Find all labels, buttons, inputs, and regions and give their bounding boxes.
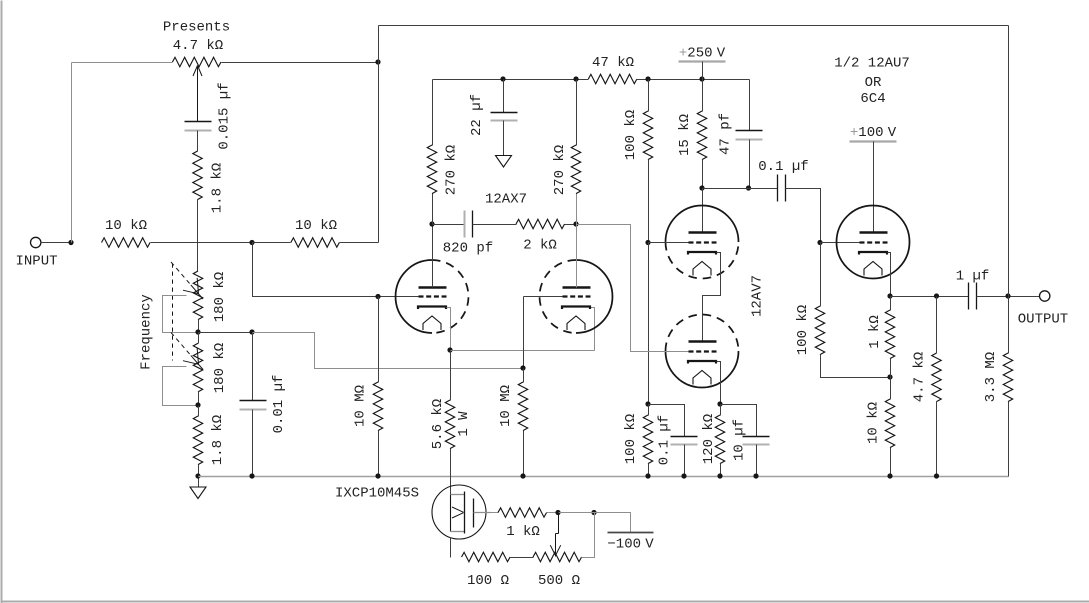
capacitor C4 820pf [465, 211, 473, 238]
wire V2b cathode lead [717, 362, 721, 405]
wire node H to R12 [378, 297, 380, 383]
svg-text:10 kΩ: 10 kΩ [105, 218, 147, 234]
node B junction dot [375, 59, 380, 64]
svg-text:22 µf: 22 µf [469, 94, 485, 136]
label 3.3 MOhm [983, 352, 999, 402]
label 1/2 12AU7 [834, 56, 910, 72]
potentiometer R25 500 Ohm [533, 552, 582, 561]
wire R4 to node B riser [340, 242, 379, 244]
wire ground bus [199, 476, 1009, 478]
svg-text:V: V [645, 537, 654, 553]
terminal INPUT [31, 237, 41, 247]
wire node Y to R22 [936, 297, 938, 354]
node AA junction dot [555, 510, 560, 515]
node A junction dot [68, 240, 73, 245]
wire 47pf top lead [749, 80, 751, 131]
triode V2b 12AV7 lower [666, 314, 739, 387]
resistor R24 1k gate [498, 508, 547, 517]
wire V3 cathode lead [888, 253, 891, 297]
wire node R to C7 [649, 405, 685, 437]
wire V1b cathode lead [591, 308, 595, 351]
svg-text:1 µf: 1 µf [956, 269, 990, 285]
svg-text:10 MΩ: 10 MΩ [353, 385, 369, 427]
svg-text:250: 250 [687, 46, 712, 62]
label 10 kOhm cathode [866, 402, 882, 444]
svg-text:100 kΩ: 100 kΩ [795, 305, 811, 355]
resistor R23 3.3M [1003, 353, 1012, 402]
svg-text:2 kΩ: 2 kΩ [523, 238, 557, 254]
node J junction dot [500, 76, 505, 81]
label 5.6 kOhm [430, 399, 446, 449]
svg-text:12AV7: 12AV7 [750, 275, 766, 317]
label 0.015 uf [217, 82, 233, 149]
svg-text:1.8 kΩ: 1.8 kΩ [210, 163, 226, 213]
svg-text:1/2 12AU7: 1/2 12AU7 [834, 56, 910, 72]
node D junction dot [195, 329, 200, 334]
capacitor C10 1uf [969, 283, 977, 310]
svg-text:4.7 kΩ: 4.7 kΩ [173, 38, 223, 54]
label 10 kOhm right [295, 218, 337, 234]
capacitor C3 22uf [491, 113, 518, 121]
label 10 MOhm right [498, 385, 514, 427]
wire R6 to node E [198, 392, 200, 406]
wire V2a grid lead [649, 242, 689, 244]
node E junction dot [195, 402, 200, 407]
svg-text:5.6 kΩ: 5.6 kΩ [430, 399, 446, 449]
wire R9 to node M [565, 224, 577, 226]
svg-text:0.01 µf: 0.01 µf [271, 375, 287, 434]
wire node R to R17 [648, 405, 650, 416]
power -100V bar [608, 532, 654, 534]
node R22 ground dot [934, 473, 939, 478]
label 100 kOhm mid [623, 414, 639, 464]
wire node AB to -100V [595, 513, 631, 533]
wire V3 grid lead [821, 242, 860, 244]
label 12AV7 [750, 275, 766, 317]
border bottom edge [1, 601, 1089, 603]
mosfet Q1 IXCP10M45S [432, 485, 491, 539]
node N junction dot [520, 365, 525, 370]
wire node B vertical [378, 26, 380, 243]
label 180 kOhm upper [212, 272, 228, 322]
resistor R2 1.8k upper [193, 151, 202, 200]
resistor R18 120k [715, 415, 724, 464]
wire R21 to ground bus [890, 448, 892, 477]
capacitor C1 0.015uf [185, 122, 212, 131]
svg-text:120 kΩ: 120 kΩ [701, 414, 717, 464]
wire V1b plate lead [576, 225, 578, 288]
svg-text:3.3 MΩ: 3.3 MΩ [983, 352, 999, 402]
wire Q1 source lead [450, 538, 452, 558]
node C2 ground dot [249, 473, 254, 478]
triode V2a 12AV7 upper [666, 206, 739, 279]
label 180 kOhm lower [212, 343, 228, 393]
wire node L to R13 [450, 351, 452, 401]
svg-text:180 kΩ: 180 kΩ [212, 343, 228, 393]
triode V1a 12AX7 left half [396, 260, 469, 333]
wire R10 top [576, 80, 578, 146]
resistor R9 2k [516, 219, 565, 228]
label INPUT [15, 254, 57, 270]
resistor R14 47k [588, 74, 637, 83]
wire C2 to ground bus [252, 410, 254, 477]
wire R16 to node S [702, 160, 704, 189]
svg-text:47 pf: 47 pf [718, 113, 734, 155]
label 10 kOhm left [105, 218, 147, 234]
resistor R15 100k upper [643, 111, 652, 160]
node R12 ground dot [375, 473, 380, 478]
svg-text:Frequency: Frequency [139, 294, 155, 370]
wire node A up left riser [71, 63, 73, 243]
label 270 kOhm left [444, 145, 460, 195]
wire R12 to ground bus [378, 431, 380, 477]
wire C7 to ground bus [684, 445, 686, 477]
capacitor C2 0.01uf [240, 401, 267, 410]
resistor R12 10M left [373, 382, 382, 431]
border left edge [1, 1, 3, 603]
node P junction dot [699, 76, 704, 81]
wire C5 to node T [749, 140, 751, 189]
label OUTPUT [1018, 312, 1068, 328]
node T junction dot [746, 185, 751, 190]
svg-text:1.8 kΩ: 1.8 kΩ [210, 415, 226, 465]
resistor R3 10k left [102, 238, 151, 247]
node C8 ground dot [753, 473, 758, 478]
label 4.7 kOhm [912, 352, 928, 402]
svg-text:0.1 µf: 0.1 µf [657, 415, 673, 465]
wire node G jog to V1b grid [253, 333, 524, 369]
wire R17 to ground bus [648, 464, 650, 477]
resistor R7 1.8k lower [193, 416, 202, 465]
label 0.1 uf right [758, 159, 808, 175]
wire Q1 gate to R24 [491, 512, 499, 514]
svg-text:180 kΩ: 180 kΩ [212, 272, 228, 322]
resistor R19 100k grid [815, 306, 824, 355]
node R junction dot [645, 401, 650, 406]
label 47 pf [718, 113, 734, 155]
wire R15 to V2a grid node [648, 160, 650, 243]
svg-text:1 W: 1 W [456, 411, 472, 437]
label 22 uf [469, 94, 485, 136]
wire V1b grid riser [523, 297, 525, 369]
wire node N to R11 [523, 369, 525, 383]
potentiometer R5 wiper arrow [171, 262, 203, 299]
wire C8 to ground bus [756, 445, 758, 477]
wire node Q to node R [648, 243, 650, 405]
svg-text:100 kΩ: 100 kΩ [623, 110, 639, 160]
svg-text:−100: −100 [607, 537, 641, 553]
label 1.8 kOhm lower [210, 415, 226, 465]
svg-text:0.1 µf: 0.1 µf [758, 159, 808, 175]
capacitor C7 0.1uf mid [671, 437, 698, 445]
label 0.01 uf [271, 375, 287, 434]
node O junction dot [645, 76, 650, 81]
svg-text:12AX7: 12AX7 [485, 192, 527, 208]
potentiometer R5 wiper bracket [163, 296, 199, 333]
resistor R17 100k mid [643, 415, 652, 464]
ground symbol 22uf [496, 156, 512, 168]
wire C4 to R9 [473, 224, 517, 226]
label 2 kOhm [523, 238, 557, 254]
svg-text:270 kΩ: 270 kΩ [444, 145, 460, 195]
node I junction dot [429, 221, 434, 226]
svg-text:500 Ω: 500 Ω [538, 573, 580, 589]
node R21 ground dot [887, 473, 892, 478]
potentiometer R6 wiper bracket [163, 367, 199, 406]
label 6C4 [860, 91, 885, 107]
node F ground junction dot [195, 473, 200, 478]
svg-text:OUTPUT: OUTPUT [1018, 312, 1068, 328]
potentiometer R5 180k upper [193, 271, 202, 320]
node H junction dot [375, 294, 380, 299]
potentiometer R1 wiper arrow [193, 66, 202, 122]
potentiometer R6 wiper arrow [171, 333, 203, 370]
wire R2 to pot chain [197, 200, 199, 272]
wire R8 top [432, 80, 434, 146]
wire node S to C6 [703, 188, 778, 190]
node W junction dot [887, 374, 892, 379]
wire feedback riser [1008, 26, 1010, 297]
node Y junction dot [934, 293, 939, 298]
label 0.1 uf mid [657, 415, 673, 465]
resistor R16 15k [697, 111, 706, 160]
wire R7 to ground bus [198, 465, 200, 488]
svg-text:+: + [850, 125, 858, 141]
wire node U to C8 [721, 405, 757, 437]
node K junction dot [573, 76, 578, 81]
wire 22uf to ground [503, 121, 505, 156]
label 4.7 kOhm value [173, 38, 223, 54]
node U junction dot [717, 401, 722, 406]
node C7 ground dot [681, 473, 686, 478]
wire R3 to node C [151, 242, 253, 244]
wire R19 to node W [821, 355, 891, 378]
wire node AA to node AB [559, 512, 595, 514]
label OR [865, 75, 882, 91]
svg-text:100: 100 [858, 125, 883, 141]
label 1 kOhm cathode [867, 315, 883, 349]
node AB junction dot [591, 510, 596, 515]
wire C10 to OUTPUT [977, 296, 1040, 298]
label +100 V [850, 125, 897, 141]
label 1.8 kOhm upper [210, 163, 226, 213]
svg-text:10 µf: 10 µf [732, 419, 748, 461]
svg-text:6C4: 6C4 [860, 91, 885, 107]
resistor R8 270k left [427, 145, 436, 194]
label 100 kOhm upper [623, 110, 639, 160]
label 100 kOhm grid [795, 305, 811, 355]
terminal OUTPUT [1040, 291, 1050, 301]
node X junction dot [887, 293, 892, 298]
wire node X to R20 [890, 297, 892, 311]
svg-text:100 Ω: 100 Ω [467, 573, 509, 589]
node R11 ground dot [520, 473, 525, 478]
potentiometer R25 500 wiper arrow [550, 513, 560, 557]
wire node C to R4 [253, 242, 291, 244]
wire node G to C2 [252, 333, 254, 401]
svg-text:INPUT: INPUT [15, 254, 57, 270]
wire node D to node G [199, 332, 253, 334]
svg-text:270 kΩ: 270 kΩ [552, 145, 568, 195]
label -100 V [607, 537, 654, 553]
svg-text:100 kΩ: 100 kΩ [623, 414, 639, 464]
wire plate rail left [433, 79, 589, 81]
label 15 kOhm [677, 114, 693, 156]
wire node I to C4 [433, 224, 465, 226]
svg-text:4.7 kΩ: 4.7 kΩ [912, 352, 928, 402]
capacitor C9 0.1uf [778, 175, 786, 202]
label 1 W [456, 411, 472, 437]
label Presents [163, 20, 230, 36]
svg-text:Presents: Presents [163, 20, 230, 36]
wire node P to R16 [702, 80, 704, 112]
label 47 kOhm [592, 55, 634, 71]
resistor R4 10k right [291, 238, 340, 247]
svg-text:0.015 µf: 0.015 µf [217, 82, 233, 149]
wire cathode link [451, 350, 595, 352]
label 100 Ohm [467, 573, 509, 589]
wire V1b grid lead [524, 296, 563, 298]
label 500 Ohm [538, 573, 580, 589]
wire R11 to ground bus [523, 431, 525, 477]
svg-text:10 kΩ: 10 kΩ [295, 218, 337, 234]
label +250 V [679, 46, 726, 62]
wire node V to R19 [820, 243, 822, 307]
triode V1b 12AX7 right half [540, 260, 613, 333]
wire R24 to node AA [547, 512, 559, 514]
wire node M jog to V2b grid [577, 225, 689, 352]
node G junction dot [249, 329, 254, 334]
potentiometer R1 4.7k zigzag [172, 57, 221, 66]
wire riser to pot R1 [72, 62, 173, 64]
label 10 MOhm left [353, 385, 369, 427]
wire node E to R7 [198, 406, 200, 417]
node L junction dot [447, 347, 452, 352]
resistor R20 1k [885, 310, 894, 359]
node R17 ground dot [645, 473, 650, 478]
wire output row [891, 296, 969, 298]
svg-text:V: V [717, 46, 726, 62]
wire top feedback rail [379, 25, 1009, 27]
svg-text:1 kΩ: 1 kΩ [867, 315, 883, 349]
svg-text:+: + [679, 46, 687, 62]
capacitor C8 10uf [743, 437, 770, 445]
wire node W to R21 [890, 378, 892, 400]
label 270 kOhm right [552, 145, 568, 195]
label 1 kOhm gate [506, 524, 540, 540]
resistor R10 270k right [571, 145, 580, 194]
resistor R26 100 Ohm [462, 552, 511, 561]
wire R13 to Q1 drain [450, 449, 452, 495]
label Frequency [139, 294, 155, 370]
capacitor C5 47pf [736, 131, 763, 140]
label 12AX7 [485, 192, 527, 208]
node M junction dot [573, 221, 578, 226]
resistor R13 5.6k 1W [445, 400, 454, 449]
ground symbol main [190, 487, 206, 499]
label 820 pf [443, 241, 493, 257]
wire R14 to node O [637, 79, 750, 81]
label 120 kOhm [701, 414, 717, 464]
wire R5 to node D [198, 320, 200, 333]
wire C9 to V3 grid [786, 189, 821, 243]
node Z junction dot [1005, 293, 1010, 298]
svg-text:OR: OR [865, 75, 882, 91]
wire C1 to R2 [197, 131, 199, 152]
node V junction dot [817, 240, 822, 245]
node R18 ground dot [717, 473, 722, 478]
potentiometer R6 180k lower [193, 343, 202, 392]
node S junction dot [699, 185, 704, 190]
wire R25 to node AB riser [582, 513, 595, 558]
svg-text:820 pf: 820 pf [443, 241, 493, 257]
wire node C to V1a grid [253, 243, 419, 297]
svg-text:47 kΩ: 47 kΩ [592, 55, 634, 71]
power +250V [679, 62, 726, 80]
wire R1 right to node B [222, 62, 379, 64]
resistor R21 10k [885, 399, 894, 448]
wire V1a plate to R8 [432, 194, 434, 225]
svg-text:15 kΩ: 15 kΩ [677, 114, 693, 156]
wire V1a cathode lead [447, 308, 451, 351]
wire 22uf top lead [503, 80, 505, 113]
svg-text:10 MΩ: 10 MΩ [498, 385, 514, 427]
power +100V [850, 142, 897, 234]
svg-text:IXCP10M45S: IXCP10M45S [335, 486, 419, 502]
label 1 uf [956, 269, 990, 285]
wire node S to V2a plate [702, 189, 704, 234]
resistor R22 4.7k [932, 353, 941, 402]
wire V1a plate lead [432, 225, 434, 288]
triode V3 12AU7 half [837, 206, 910, 279]
label IXCP10M45S [335, 486, 419, 502]
node Q junction dot [645, 240, 650, 245]
svg-text:V: V [888, 125, 897, 141]
svg-text:1 kΩ: 1 kΩ [506, 524, 540, 540]
wire R18 to ground bus [720, 464, 722, 477]
svg-text:10 kΩ: 10 kΩ [866, 402, 882, 444]
node C junction dot [249, 240, 254, 245]
wire node U to R18 [720, 405, 722, 416]
wire R23 to ground bus [1008, 402, 1010, 477]
label 10 uf [732, 419, 748, 461]
wire V2a cathode jog to V2b plate [703, 253, 721, 342]
wire node M to R10 [576, 194, 578, 225]
wire node D to R6 [198, 333, 200, 344]
wire node Z to R23 [1008, 297, 1010, 354]
wire node O to R15 [648, 80, 650, 112]
gang dashed link [172, 264, 174, 361]
wire input to node A [41, 242, 72, 244]
wire R26 to R25 [511, 557, 534, 559]
wire R20 to node W [890, 359, 892, 378]
resistor R11 10M right [518, 382, 527, 431]
wire R22 to ground bus [936, 402, 938, 477]
